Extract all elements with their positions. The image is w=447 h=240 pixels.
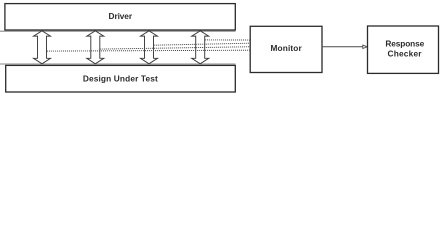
dotted probe wire from arrow 4 to Monitor [205,39,250,41]
Design Under Test box [6,65,236,92]
svg-text:Checker: Checker [388,49,423,59]
bidirectional block arrow 2 [87,31,104,64]
Monitor box [250,26,322,72]
svg-text:Driver: Driver [109,11,133,21]
dotted probe wire from arrow 3 to Monitor [154,43,250,45]
interface line top [0,30,236,32]
dotted probe wire from arrow 2 to Monitor [100,47,250,49]
svg-text:Response: Response [385,39,424,49]
wire from Monitor to Response Checker [322,46,363,48]
dotted probe wire from arrow 1 to Monitor [47,49,250,52]
bidirectional block arrow 4 [192,31,209,64]
bidirectional block arrow 3 [141,31,158,64]
svg-text:Design Under Test: Design Under Test [83,73,158,83]
open arrowhead at Response Checker [363,45,367,48]
Driver box [5,4,235,30]
interface line bottom [0,63,236,65]
svg-text:Monitor: Monitor [271,43,303,53]
Response Checker box [368,26,439,73]
bidirectional block arrow 1 [34,31,51,64]
